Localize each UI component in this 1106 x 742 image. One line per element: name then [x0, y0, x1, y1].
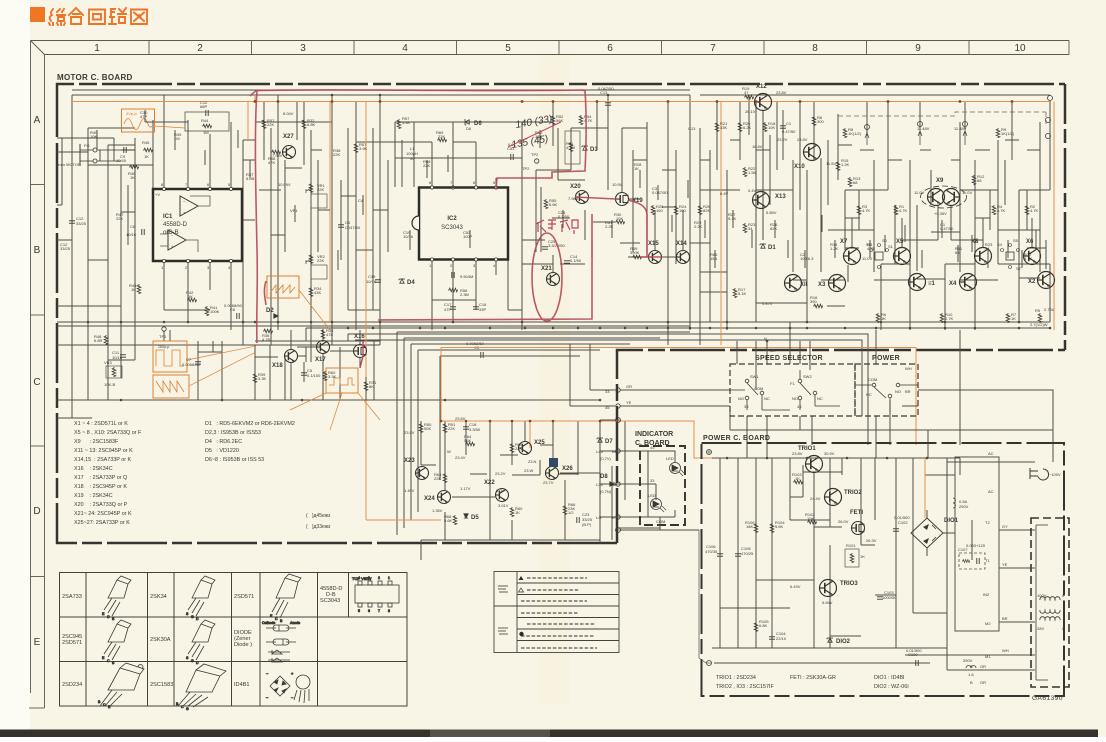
svg-text:00: 00 [410, 156, 415, 161]
svg-text:2.3M: 2.3M [460, 292, 469, 297]
wire subboard nest rectangles [397, 332, 690, 535]
resistor R39 [253, 373, 257, 383]
svg-text:470/35: 470/35 [705, 549, 718, 554]
test point TP1 [162, 327, 166, 331]
svg-text:56K: 56K [464, 438, 471, 443]
svg-text:10K: 10K [807, 516, 814, 521]
svg-text:L45: L45 [596, 449, 603, 454]
svg-text:10/16: 10/16 [126, 232, 137, 237]
svg-text:X17: X17 [315, 357, 326, 363]
svg-text:GA61390: GA61390 [1032, 695, 1063, 702]
waveform box sawtooth small [267, 276, 330, 330]
svg-text:GY: GY [1002, 524, 1008, 529]
TO92 package row2 col1 [102, 620, 131, 665]
svg-text:23.8V: 23.8V [776, 90, 787, 95]
svg-text:X23: X23 [404, 458, 415, 464]
svg-text:1M: 1M [174, 136, 180, 141]
svg-text:(0.7N): (0.7N) [600, 489, 612, 494]
svg-text:D4: D4 [407, 280, 415, 286]
transistor X18 [285, 350, 298, 363]
svg-text:D3: D3 [590, 147, 598, 153]
resistor R56 [448, 288, 458, 292]
svg-text:6.2K: 6.2K [743, 125, 752, 130]
svg-text:~100V: ~100V [1049, 472, 1061, 477]
svg-text:18K: 18K [746, 524, 753, 529]
svg-text:10K: 10K [616, 216, 623, 221]
svg-text:33: 33 [650, 478, 655, 483]
svg-text:Diode ): Diode ) [234, 642, 252, 648]
svg-text:C13: C13 [688, 126, 696, 131]
svg-text:C102: C102 [898, 520, 908, 525]
svg-text:NO: NO [895, 389, 901, 394]
svg-text:4: 4 [358, 576, 360, 580]
svg-text:10/45: 10/45 [116, 158, 127, 163]
svg-text:( )д33ежз: ( )д33ежз [306, 524, 331, 530]
svg-text:1.2K: 1.2K [841, 162, 850, 167]
svg-text:68: 68 [853, 180, 858, 185]
svg-text:2SD234: 2SD234 [62, 682, 82, 688]
wire ic2 bottom verticals [432, 230, 508, 330]
svg-text:TRIO2 , IO3 : 2SC157IF: TRIO2 , IO3 : 2SC157IF [716, 684, 775, 690]
wire orange sub verticals [366, 421, 530, 520]
svg-text:250V: 250V [963, 658, 973, 663]
svg-text:X9: X9 [936, 178, 944, 184]
svg-text:9: 9 [915, 43, 921, 54]
svg-text:8K: 8K [369, 384, 374, 389]
resistor R36 [263, 329, 273, 333]
wire orange links verticals lower [668, 322, 945, 345]
resistor R21 [715, 122, 719, 132]
svg-text:1K: 1K [131, 287, 136, 292]
svg-text:23.2V: 23.2V [777, 137, 788, 142]
wire power horizontals [712, 472, 947, 663]
svg-text:26.0V: 26.0V [838, 519, 849, 524]
svg-text:T2: T2 [985, 520, 990, 525]
svg-text:11.88V: 11.88V [954, 126, 967, 131]
svg-text:11.5V: 11.5V [826, 161, 836, 166]
svg-text:10K-B: 10K-B [104, 382, 115, 387]
wire left mid verticals [153, 95, 231, 189]
svg-text:WH: WH [905, 366, 912, 371]
svg-text:A: A [34, 115, 41, 126]
resistor R20 [738, 122, 742, 132]
resistor R6a [812, 116, 816, 126]
wire midleft verticals [72, 310, 374, 418]
transistor TRIO1 [806, 456, 823, 473]
svg-text:SC3043: SC3043 [441, 225, 463, 231]
resistor R8 [843, 128, 847, 138]
svg-text:22K: 22K [317, 258, 324, 263]
svg-text:11.48V: 11.48V [917, 126, 930, 131]
waveform box square [153, 341, 187, 372]
svg-text:0.47/50: 0.47/50 [940, 226, 954, 231]
red annotation descent to bus [378, 214, 592, 320]
dashed linkage line [838, 112, 1046, 124]
transistor TRIO2 [825, 489, 842, 506]
transistor X20 [576, 191, 589, 204]
svg-text:BR: BR [770, 348, 776, 353]
resistor R24 [674, 205, 678, 215]
svg-text:23.7V: 23.7V [543, 480, 554, 485]
resistor R106 [754, 523, 758, 533]
svg-text:C047/50: C047/50 [345, 225, 361, 230]
svg-text:D2: D2 [266, 308, 274, 314]
power board id text [716, 675, 909, 690]
column tick dividers [148, 41, 150, 55]
resistor R41 [205, 306, 209, 316]
svg-text:X4: X4 [949, 281, 957, 287]
TO220 package row3 col2 [176, 664, 226, 711]
svg-text:4: 4 [402, 43, 408, 54]
resistor R101 boxed [845, 549, 859, 567]
svg-text:INDICATOR: INDICATOR [635, 431, 673, 438]
svg-text:1.2K: 1.2K [830, 246, 839, 251]
resistor R69 [437, 138, 447, 142]
svg-text:10K: 10K [90, 134, 97, 139]
node grid row letters [33, 115, 40, 648]
svg-text:4.7B: 4.7B [262, 337, 271, 342]
svg-text:LED: LED [648, 493, 656, 498]
svg-text:68: 68 [977, 178, 982, 183]
terminal plus [616, 418, 621, 423]
svg-text:22K: 22K [515, 446, 522, 451]
wire col4 verticals [373, 95, 496, 345]
svg-text:Anode: Anode [290, 621, 300, 625]
svg-text:7: 7 [710, 43, 716, 54]
wire orange right drop [255, 96, 1054, 330]
resistor R18 [763, 122, 767, 132]
led LED2 [651, 499, 667, 513]
resistor R66b [563, 505, 567, 515]
svg-text:33/25: 33/25 [60, 246, 71, 251]
motor coil terminal 3 [963, 122, 968, 127]
terminal L45 [616, 449, 620, 453]
svg-text:S1: S1 [888, 244, 894, 249]
motor coil terminal 1 [918, 122, 923, 127]
svg-text:5.84V: 5.84V [822, 600, 833, 605]
fet X16 [354, 345, 367, 358]
orange voltage labels top [272, 90, 1055, 312]
svg-text:R101: R101 [846, 543, 856, 548]
TO92 package row1 col2 [186, 576, 215, 621]
capacitor C23 [577, 517, 579, 523]
svg-text:IN2: IN2 [983, 592, 990, 597]
capacitor C16 [473, 307, 479, 309]
transistor X11 [785, 275, 802, 292]
svg-text:L⊕: L⊕ [596, 515, 602, 520]
svg-text:AC: AC [988, 451, 994, 456]
resistor R66 [453, 515, 457, 525]
svg-text:C6: C6 [130, 224, 136, 229]
capacitor C11 [120, 355, 126, 357]
resistor R64 [465, 442, 475, 446]
svg-text:3.3K: 3.3K [258, 376, 267, 381]
svg-text:33: 33 [605, 389, 610, 394]
capacitor C14 [564, 261, 570, 263]
svg-text:DIO2: DIO2 [836, 639, 851, 645]
svg-text:SPEED SELECTOR: SPEED SELECTOR [755, 355, 823, 362]
svg-text:390K: 390K [630, 250, 640, 255]
transistor X26b label L values [596, 449, 618, 520]
svg-text:34: 34 [985, 246, 990, 251]
resistor R33 [364, 381, 368, 391]
resistor R104 [770, 523, 774, 533]
red text 140/135 [511, 114, 554, 151]
transistor X26 [546, 467, 559, 480]
svg-text:E: E [34, 637, 41, 648]
svg-text:2.2K: 2.2K [694, 224, 703, 229]
svg-text:0.01/500: 0.01/500 [894, 515, 910, 520]
svg-text:1.6: 1.6 [968, 672, 974, 677]
svg-text:5: 5 [358, 609, 360, 613]
svg-text:5.6K: 5.6K [775, 524, 784, 529]
wire horizontal runs top [88, 122, 647, 128]
svg-text:2.7(1/2)W: 2.7(1/2)W [1030, 322, 1048, 327]
svg-text:47: 47 [744, 90, 749, 95]
wire bottom bus [57, 322, 1050, 345]
resistor R57 [262, 119, 266, 129]
waveform box pulse [290, 368, 380, 430]
capacitor C13 [605, 103, 611, 105]
resistor R35 [321, 329, 325, 339]
DIP8 package [352, 576, 399, 613]
svg-text:22K: 22K [434, 476, 441, 481]
svg-text:45: 45 [605, 405, 610, 410]
svg-text:POWER: POWER [872, 355, 900, 362]
svg-text:3.3K: 3.3K [328, 374, 337, 379]
svg-text:22K: 22K [116, 216, 123, 221]
transformer primary line [1036, 525, 1048, 680]
svg-text:5.6K: 5.6K [444, 518, 453, 523]
transistor list text [74, 421, 142, 526]
svg-text:D8: D8 [600, 474, 608, 480]
transistor X2 [1038, 272, 1055, 289]
svg-text:5.85V: 5.85V [766, 210, 777, 215]
svg-text:LED: LED [666, 456, 674, 461]
resistor R52 [551, 115, 555, 125]
svg-text:X14: X14 [676, 241, 687, 247]
terminal 33 [616, 388, 620, 392]
TO92 package row1 col3 [270, 574, 301, 623]
title orange square [30, 7, 45, 22]
svg-text:4.7K: 4.7K [862, 208, 871, 213]
zener DIO2 [827, 638, 833, 642]
junction dots gray [254, 94, 1021, 460]
wire ic1 bottom verticals [164, 261, 231, 330]
terminal 45 [616, 404, 620, 408]
op-amp IC2 [412, 180, 508, 268]
wire col6 right verticals [700, 95, 783, 345]
wire terminal feeds [570, 344, 730, 530]
wire power right links [905, 430, 1053, 670]
svg-text:100V: 100V [1037, 593, 1047, 598]
svg-text:SW2: SW2 [803, 374, 812, 379]
svg-text:22K: 22K [438, 134, 445, 139]
svg-text:68P: 68P [200, 104, 207, 109]
resistor R54 [579, 115, 583, 125]
svg-text:TP2: TP2 [522, 166, 530, 171]
wire indicator internals [648, 451, 675, 530]
transistor X23 [416, 467, 429, 480]
wire gap crossing verticals [737, 330, 960, 458]
svg-text:5.1K: 5.1K [738, 291, 747, 296]
transistor X24 [438, 491, 451, 504]
svg-text:D4 : RD6.2EC: D4 : RD6.2EC [205, 439, 242, 445]
TO92 package row1 col1 [102, 576, 131, 621]
svg-text:X1 ~ 4 : 2SD571L or K: X1 ~ 4 : 2SD571L or K [74, 421, 128, 427]
transistor X1 [909, 274, 926, 291]
zener ZD1 [760, 244, 766, 248]
resistor R42 [187, 298, 197, 302]
svg-text:0.1/50: 0.1/50 [558, 214, 570, 219]
transistor X13 [753, 192, 770, 209]
capacitor C6 [142, 229, 144, 235]
svg-text:C4: C4 [358, 198, 364, 203]
svg-text:5.1K: 5.1K [1024, 256, 1033, 261]
switch POWER [856, 383, 918, 412]
svg-text:22K: 22K [423, 163, 430, 168]
svg-text:D1: D1 [768, 245, 776, 251]
svg-text:VR3: VR3 [104, 360, 113, 365]
svg-text:100/6.3: 100/6.3 [800, 256, 814, 261]
svg-text:B: B [970, 680, 973, 685]
svg-text:2: 2 [378, 576, 380, 580]
wire col3 verticals [243, 95, 356, 345]
transistor X3 [829, 275, 846, 292]
svg-text:8.04V: 8.04V [283, 111, 294, 116]
svg-text:G: G [186, 707, 189, 711]
wire midleft horizontals [57, 347, 600, 418]
wire subboard verticals [421, 421, 625, 543]
svg-text:160: 160 [656, 208, 663, 213]
svg-text:0.047/50: 0.047/50 [652, 190, 668, 195]
resistor R44 [202, 124, 212, 128]
svg-text:X9 : 2SC1583F: X9 : 2SC1583F [74, 439, 119, 445]
texture labels [60, 110, 1033, 261]
svg-text:B: B [34, 245, 41, 256]
svg-text:NO: NO [792, 396, 798, 401]
svg-text:R5: R5 [1035, 308, 1041, 313]
resistor R9 [996, 128, 1000, 138]
resistor R3 [857, 205, 861, 215]
svg-text:3: 3 [300, 43, 306, 54]
svg-text:IC1: IC1 [163, 214, 173, 220]
svg-text:5.6K: 5.6K [549, 202, 558, 207]
resistor R1 [894, 205, 898, 215]
capacitor C25 [542, 247, 548, 249]
svg-text:9.504M: 9.504M [460, 274, 473, 279]
svg-text:IC2: IC2 [447, 216, 457, 222]
capacitor CR [301, 373, 307, 375]
resistor R26 [698, 205, 702, 215]
svg-text:4.7K: 4.7K [867, 246, 876, 251]
wire horizontal row y218-232 [552, 218, 1040, 232]
svg-text:YE: YE [1002, 562, 1008, 567]
orange junction dots on orange bus [254, 100, 1014, 103]
svg-text:2.7K: 2.7K [945, 316, 954, 321]
red text bidou kairo [536, 220, 578, 234]
svg-text:1K: 1K [144, 154, 149, 159]
svg-text:MOTOR C. BOARD: MOTOR C. BOARD [57, 73, 133, 82]
svg-text:X13: X13 [775, 194, 786, 200]
svg-text:2SC1583: 2SC1583 [150, 682, 173, 688]
svg-text:ID4B1: ID4B1 [234, 682, 250, 688]
transistor X8 [975, 248, 992, 265]
svg-text:NO: NO [738, 396, 744, 401]
svg-text:R45: R45 [142, 140, 150, 145]
svg-text:COM: COM [754, 386, 763, 391]
transistor X10 [804, 144, 821, 161]
svg-text:X15: X15 [648, 241, 659, 247]
svg-text:7.98V: 7.98V [272, 153, 283, 158]
title kanji (vector strokes) [49, 8, 147, 25]
wire horizontal row y264-280 [522, 264, 1050, 280]
bridge package row3 [266, 671, 310, 703]
resistor R19 [744, 95, 754, 99]
waveform box sawtooth2 [153, 375, 189, 398]
svg-text:TRIO2: TRIO2 [844, 490, 862, 496]
svg-text:0.033+120: 0.033+120 [966, 543, 986, 548]
svg-text:X18: X18 [272, 363, 283, 369]
fuse 0.5A [953, 498, 956, 508]
svg-text:0.4V: 0.4V [748, 188, 757, 193]
svg-text:5.1K: 5.1K [728, 216, 737, 221]
svg-text:23.4V: 23.4V [455, 455, 466, 460]
wire col5 verticals [522, 95, 690, 330]
svg-text:XII: XII [800, 282, 808, 288]
capacitor C pin2 [452, 272, 454, 278]
svg-text:1: 1 [94, 43, 100, 54]
svg-text:DIO1: DIO1 [944, 518, 959, 524]
svg-text:COM: COM [868, 377, 877, 382]
transistor X25 [519, 442, 532, 455]
svg-text:FETI: FETI [850, 510, 863, 516]
svg-text:3.8K: 3.8K [402, 120, 411, 125]
svg-text:TRIO3: TRIO3 [840, 581, 858, 587]
capacitor C5 [780, 126, 786, 128]
switch SW2 [798, 370, 840, 410]
red annotation bottom squiggle [264, 281, 266, 305]
svg-text:5.6B: 5.6B [246, 176, 255, 181]
svg-text:YE: YE [626, 400, 632, 405]
ac plug [1030, 468, 1049, 480]
svg-text:S4: S4 [997, 242, 1003, 247]
svg-text:X10: X10 [794, 164, 805, 170]
resistor R51 boxed [565, 131, 580, 164]
resistor R17 [733, 288, 737, 298]
svg-text:VR1: VR1 [290, 208, 299, 213]
svg-text:1K: 1K [634, 166, 639, 171]
resistor R34 [309, 287, 313, 297]
svg-text:23.6V: 23.6V [455, 416, 466, 421]
input terminals FG [80, 144, 135, 166]
svg-text:BR: BR [1002, 616, 1008, 621]
motor conn terminal right [1046, 118, 1051, 123]
motor coil terminal 2 [865, 125, 870, 130]
svg-text:23.8V: 23.8V [797, 137, 808, 142]
svg-text:0.1/100: 0.1/100 [307, 373, 321, 378]
svg-text:TRIO1 : 2SD234: TRIO1 : 2SD234 [716, 675, 756, 681]
svg-text:300: 300 [817, 119, 824, 124]
capacitor C12b [69, 221, 75, 223]
waveform box sine [122, 109, 186, 132]
svg-text:X2: X2 [1028, 279, 1036, 285]
power terminal minus [707, 661, 712, 666]
resistor R16 [813, 304, 823, 308]
svg-text:X24: X24 [424, 496, 435, 502]
transformer winding 1 [1040, 597, 1060, 600]
diode list text [205, 421, 295, 463]
